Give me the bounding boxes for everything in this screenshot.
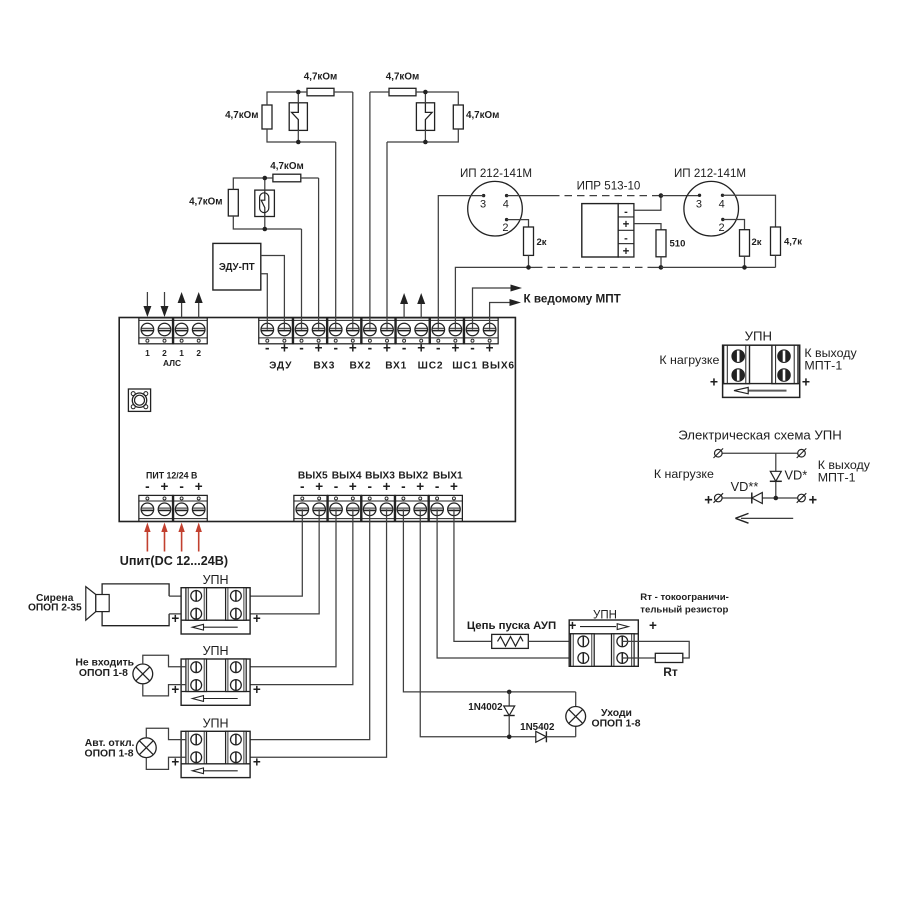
svg-text:3: 3 (480, 199, 486, 211)
wire to ВХ2+ terminal (352, 92, 354, 330)
wire ВЫХ2+ to 1N5402 line (420, 509, 536, 737)
svg-text:4,7кОм: 4,7кОм (270, 161, 303, 172)
wire resistor to УПН АУП (528, 640, 583, 642)
detector 2 pin 4 (721, 194, 724, 197)
svg-text:-: - (300, 479, 305, 494)
svg-text:-: - (624, 233, 628, 245)
svg-text:+: + (451, 341, 459, 356)
bottom strip terminal 9 (431, 497, 444, 516)
junction dot ВЫХ2- line (507, 690, 512, 695)
schema direction arrow (open, pointing left) (741, 517, 793, 519)
smoke detector ИП 212-141М (right) body circle (684, 181, 739, 236)
detector 2 pin 2 (721, 218, 724, 221)
svg-text:+: + (253, 682, 261, 697)
wire ВЫХ1- to УПН АУП bottom (437, 509, 583, 658)
svg-text:4,7кОм: 4,7кОм (304, 72, 337, 83)
bottom terminal strip blocks (294, 495, 328, 521)
ИПР 513-10 body box (582, 204, 618, 257)
svg-text:МПТ-1: МПТ-1 (804, 358, 842, 372)
ПИТ terminal 1 (141, 497, 154, 516)
svg-text:+: + (349, 341, 357, 356)
schema terminal bottom-right (798, 494, 806, 502)
svg-text:ШС2: ШС2 (418, 361, 444, 372)
schema vertical wire (775, 453, 777, 471)
programming button (128, 389, 150, 411)
bottom strip terminal 5 (363, 497, 376, 516)
siren body box (102, 584, 169, 626)
detector 1 pin 3 (482, 194, 485, 197)
УПН (siren) screws (191, 591, 202, 602)
ПИТ terminal 4 (192, 497, 205, 516)
УПН (Авт. откл.) direction arrow (203, 770, 238, 772)
svg-text:2: 2 (502, 222, 508, 234)
diode VD* (vertical, pointing down) (770, 471, 781, 481)
УПН АУП screws (578, 636, 589, 647)
svg-text:-: - (265, 341, 270, 356)
wire detector2 pin2 to resistor 2к (723, 220, 745, 230)
box ЭДУ-ПТ (213, 243, 261, 290)
svg-text:+: + (417, 341, 425, 356)
upper strip terminal 2 (278, 323, 291, 342)
svg-text:+: + (704, 492, 712, 508)
svg-text:1: 1 (145, 348, 150, 358)
reference УПН screws (dark) (732, 350, 744, 362)
wires group 2 (416, 92, 458, 105)
svg-text:Цепь пуска АУП: Цепь пуска АУП (467, 620, 556, 632)
schema bottom wire (722, 497, 798, 499)
svg-text:+: + (623, 219, 630, 231)
upper strip terminal 11 (432, 323, 445, 342)
wire ends entering upper strip screws (266, 317, 268, 330)
svg-text:ЭДУ: ЭДУ (269, 361, 292, 372)
bottom strip terminal 1 (296, 497, 309, 516)
УПН АУП body (flipped, arrow on top) (569, 620, 638, 666)
ПИТ terminal strip blocks (139, 495, 173, 521)
svg-text:+: + (315, 341, 323, 356)
svg-text:VD**: VD** (731, 479, 759, 494)
arrow down into АЛС 1 (146, 292, 148, 307)
wires lamp Не входить to УПН2 (143, 655, 186, 667)
diode 1N5402 (horizontal) (536, 731, 547, 742)
lamp Не входить symbol (133, 664, 153, 684)
svg-text:510: 510 (670, 239, 686, 250)
svg-text:УПН: УПН (203, 644, 229, 658)
svg-text:Rт: Rт (663, 665, 678, 679)
svg-text:4,7кОм: 4,7кОм (386, 72, 419, 83)
wire Rт to УПН АУП bottom-right screw (622, 657, 655, 659)
upper strip terminal 4 (312, 323, 325, 342)
bottom strip terminal 2 (313, 497, 326, 516)
ИПР 513-10 terminal column (618, 204, 634, 257)
svg-text:+: + (486, 341, 494, 356)
wire ВЫХ6+ to К ведомому МПТ (lower arrow) (490, 303, 511, 330)
resistor 510 (656, 230, 666, 257)
schema terminal top-right (798, 449, 806, 457)
junction dot bottom line at 2к det2 (742, 265, 747, 270)
wire ЭДУ-ПТ to ЭДУ+ terminal (261, 256, 285, 330)
svg-text:-: - (179, 479, 184, 494)
svg-text:+: + (195, 479, 203, 494)
schema junction dot (774, 496, 779, 501)
svg-text:+: + (161, 479, 169, 494)
wire 2к (det2) to bottom line (744, 256, 746, 267)
svg-text:+: + (710, 373, 718, 389)
svg-text:УПН: УПН (203, 573, 229, 587)
resistor 4,7к (end of line) (771, 227, 781, 255)
svg-text:4,7к: 4,7к (784, 236, 802, 247)
svg-text:ОПОП 1-8: ОПОП 1-8 (84, 749, 133, 760)
svg-text:ШС1: ШС1 (452, 361, 478, 372)
svg-text:-: - (624, 206, 628, 218)
upper strip terminal 1 (261, 323, 274, 342)
upper terminal strip blocks (ЭДУ ВХ3 ВХ2 ВХ1 ШС2 ШС1 ВЫХ6) (259, 318, 293, 344)
АЛС terminal 3 (175, 323, 188, 342)
wire ВЫХ4+ to УПН2 (237, 509, 353, 684)
svg-text:-: - (145, 479, 150, 494)
parallel resistor 4,7кОм vertical (group 1) (262, 105, 272, 129)
ПИТ terminal 3 (175, 497, 188, 516)
wire 510 to bottom line (660, 257, 662, 268)
arrow down into АЛС 2 (164, 292, 166, 307)
wire 2к down to shield bottom line (528, 255, 530, 267)
wire ВЫХ5- to УПН1 (237, 509, 303, 596)
svg-text:Уходи: Уходи (601, 708, 632, 719)
svg-text:4,7кОм: 4,7кОм (189, 196, 222, 207)
wire ВЫХ5+ to УПН1 (237, 509, 320, 614)
svg-text:ИПР 513-10: ИПР 513-10 (577, 179, 641, 192)
resistor 2к (detector 1) (524, 227, 534, 255)
svg-text:-: - (470, 341, 475, 356)
svg-text:ИП 212-141М: ИП 212-141М (460, 167, 532, 180)
resistor Rт (655, 653, 683, 662)
thermal lock box (group 3) (255, 190, 275, 216)
schema terminal bottom-left (715, 494, 723, 502)
svg-text:+: + (416, 479, 424, 494)
parallel resistor 4,7кОм vertical (group 3) (228, 189, 238, 216)
УПН block body (Не входить) (181, 659, 250, 705)
wires group 3 (233, 178, 273, 189)
svg-text:+: + (349, 479, 357, 494)
svg-text:+: + (649, 618, 657, 633)
svg-text:К ведомому МПТ: К ведомому МПТ (524, 292, 622, 305)
junction dot ВЫХ2+ line (507, 735, 512, 740)
junction dot bottom line (659, 265, 664, 270)
bottom strip terminal 4 (347, 497, 360, 516)
node dots group 3 (263, 176, 268, 181)
upper strip terminal 6 (347, 323, 360, 342)
diode VD** (horizontal, pointing left) (752, 493, 763, 504)
svg-text:4,7кОм: 4,7кОм (225, 110, 258, 121)
main panel МПТ-1 outline (119, 318, 515, 522)
upper strip terminal 14 (483, 323, 496, 342)
svg-text:+: + (253, 755, 261, 770)
wire detector1 pin4 right (solid then dashed) (507, 195, 552, 197)
АЛС terminal 4 (192, 323, 205, 342)
svg-text:-: - (401, 479, 406, 494)
svg-text:+: + (450, 479, 458, 494)
svg-text:1: 1 (179, 348, 184, 358)
smoke detector ИП 212-141М (left) body circle (468, 181, 523, 236)
АЛС terminal 2 (158, 323, 171, 342)
svg-text:+: + (315, 479, 323, 494)
series resistor 4,7кОм horizontal (group 3) (273, 174, 301, 182)
АЛС terminal strip blocks (139, 318, 173, 344)
wire siren to УПН1 bottom (169, 613, 186, 615)
schema terminal top-left (circle with slash) (715, 449, 723, 457)
svg-text:ПИТ 12/24 В: ПИТ 12/24 В (146, 470, 197, 480)
bottom strip terminal 10 (448, 497, 461, 516)
svg-text:-: - (333, 341, 338, 356)
wire ВЫХ3+ to УПН3 (237, 509, 387, 757)
УПН block body (siren) (181, 588, 250, 634)
svg-text:2: 2 (719, 222, 725, 234)
wire ВЫХ3- to УПН3 (237, 509, 370, 739)
arrow up from АЛС 1 (181, 302, 183, 318)
wire to ВХ1- terminal (369, 92, 371, 330)
switch contact box (group 2) (416, 103, 434, 131)
siren speaker symbol (86, 587, 96, 621)
svg-text:4,7кОм: 4,7кОм (466, 110, 499, 121)
upper strip terminal 9 (398, 323, 411, 342)
svg-text:Uпит(DC 12...24В): Uпит(DC 12...24В) (120, 554, 228, 568)
red power arrows Uпит (146, 531, 148, 552)
launch circuit resistor (zigzag) (492, 634, 529, 648)
upper strip terminal 13 (466, 323, 479, 342)
svg-text:-: - (436, 341, 441, 356)
wire ВЫХ4- to УПН2 (237, 509, 337, 667)
wire detector1 pin2 to resistor 2к (507, 220, 529, 227)
wire to ВХ3+ terminal (318, 178, 320, 330)
parallel resistor 4,7кОм vertical (group 2) (453, 105, 463, 129)
svg-text:-: - (334, 479, 339, 494)
wire detector1 pin3 to ШС1- terminal (438, 196, 483, 330)
wire УПН АУП top-right screw around to Rт (622, 641, 689, 658)
wire ВЫХ6- to К ведомому МПТ (upper arrow) (473, 288, 513, 330)
svg-text:+: + (569, 618, 577, 633)
reference УПН body (723, 345, 800, 397)
svg-text:ИП 212-141М: ИП 212-141М (674, 167, 746, 180)
svg-text:Электрическая схема УПН: Электрическая схема УПН (678, 427, 842, 442)
svg-text:VD*: VD* (785, 467, 808, 482)
upper strip terminal 7 (364, 323, 377, 342)
wire to ВХ3- terminal (301, 229, 303, 330)
svg-text:К нагрузке: К нагрузке (659, 353, 719, 367)
АЛС terminal 1 (141, 323, 154, 342)
УПН (Не входить) screws (191, 662, 202, 673)
svg-text:ОПОП 2-35: ОПОП 2-35 (28, 603, 82, 614)
bottom strip terminal 7 (397, 497, 410, 516)
УПН block body (Авт. откл.) (181, 731, 250, 777)
wire detector2 pin4 to resistor 4,7к (723, 195, 776, 227)
svg-text:+: + (280, 341, 288, 356)
svg-text:2: 2 (196, 348, 201, 358)
svg-text:Авт. откл.: Авт. откл. (85, 738, 135, 749)
lamp Авт. откл. symbol (136, 738, 156, 758)
detector 2 pin 3 (698, 194, 701, 197)
arrow up from АЛС 2 (198, 302, 200, 318)
resistor 2к (detector 2) (740, 230, 750, 257)
wires group 1 (267, 92, 307, 105)
wire to ВХ2- terminal (335, 142, 337, 330)
svg-text:3: 3 (696, 199, 702, 211)
bottom line to 4,7к (661, 266, 776, 268)
УПН (siren) direction arrow (203, 626, 238, 628)
svg-text:МПТ-1: МПТ-1 (818, 470, 856, 484)
svg-text:-: - (367, 479, 372, 494)
svg-text:-: - (402, 341, 407, 356)
svg-text:тельный резистор: тельный резистор (640, 604, 728, 615)
bottom strip terminal 6 (380, 497, 393, 516)
svg-text:Не входить: Не входить (75, 658, 134, 669)
upper strip terminal 10 (415, 323, 428, 342)
detector 1 pin 4 (505, 194, 508, 197)
svg-text:К нагрузке: К нагрузке (654, 467, 714, 481)
wire ИПР terminal 2 to resistor 510 (634, 224, 661, 230)
svg-text:1N5402: 1N5402 (520, 722, 555, 733)
svg-text:Rт - токоограничи-: Rт - токоограничи- (640, 592, 729, 603)
svg-text:2: 2 (162, 348, 167, 358)
svg-text:ОПОП 1-8: ОПОП 1-8 (591, 719, 640, 730)
svg-text:ВХ2: ВХ2 (349, 361, 371, 372)
upper strip terminal 3 (295, 323, 308, 342)
svg-text:-: - (435, 479, 440, 494)
svg-text:+: + (383, 479, 391, 494)
svg-text:1N4002: 1N4002 (468, 702, 503, 713)
upper strip terminal 12 (449, 323, 462, 342)
УПН (Авт. откл.) screws (191, 734, 202, 745)
wire ВЫХ2- to Уходи lamp line (403, 509, 575, 692)
wire siren to УПН1 top (169, 595, 186, 597)
lamp Уходи ОПОП 1-8 (575, 692, 577, 707)
detector 1 pin 2 (505, 218, 508, 221)
bottom strip terminal 3 (330, 497, 343, 516)
УПН АУП direction arrow (points right) (580, 626, 616, 628)
node dots group 2 (423, 90, 428, 95)
svg-text:АЛС: АЛС (163, 358, 181, 368)
svg-text:ОПОП 1-8: ОПОП 1-8 (79, 668, 128, 679)
svg-text:2к: 2к (537, 237, 547, 248)
arrow up from ШС2- (403, 303, 405, 318)
svg-text:-: - (368, 341, 373, 356)
svg-text:ВЫХ6: ВЫХ6 (482, 361, 515, 372)
svg-text:+: + (623, 246, 630, 258)
wires lamp Авт. откл. to УПН3 (146, 728, 186, 739)
svg-text:+: + (383, 341, 391, 356)
svg-text:ВХ1: ВХ1 (385, 361, 407, 372)
svg-text:-: - (299, 341, 304, 356)
junction dot top line (659, 193, 664, 198)
УПН (Не входить) direction arrow (203, 698, 238, 700)
svg-text:УПН: УПН (203, 717, 229, 731)
svg-text:УПН: УПН (745, 328, 772, 343)
svg-text:ВХ3: ВХ3 (313, 361, 335, 372)
wire ИПР terminal 1 to top line (634, 196, 661, 211)
diode 1N4002 (vertical) (508, 692, 510, 706)
wire top line to detector 2 pin 3 (661, 195, 700, 197)
series resistor 4,7кОм horizontal (group 1) (307, 88, 334, 96)
junction dot bottom line at 2к (526, 265, 531, 270)
svg-text:4: 4 (503, 199, 509, 211)
switch contact box (group 1) (289, 103, 307, 131)
wire ВЫХ1+ to Цепь пуска АУП resistor (454, 509, 492, 641)
reference УПН direction arrow (747, 390, 787, 392)
svg-text:4: 4 (719, 199, 725, 211)
upper strip terminal 8 (381, 323, 394, 342)
wire ЭДУ-ПТ to ЭДУ- terminal (261, 274, 268, 330)
arrow up from ШС2+ (420, 303, 422, 318)
schema top wire (722, 452, 798, 454)
svg-text:+: + (802, 373, 810, 389)
node dots group 1 (296, 90, 301, 95)
svg-text:+: + (171, 611, 179, 626)
ПИТ terminal 2 (158, 497, 171, 516)
series resistor 4,7кОм horizontal (group 2) (389, 88, 416, 96)
bottom line: ШС1+ up and right (solid then dashed) (455, 267, 528, 329)
wire to ВХ1+ terminal (386, 142, 388, 330)
svg-text:2к: 2к (752, 237, 762, 248)
svg-text:ЭДУ-ПТ: ЭДУ-ПТ (219, 262, 255, 273)
svg-text:+: + (809, 492, 817, 508)
upper strip terminal 5 (329, 323, 342, 342)
bottom strip terminal 8 (414, 497, 427, 516)
svg-text:+: + (253, 611, 261, 626)
